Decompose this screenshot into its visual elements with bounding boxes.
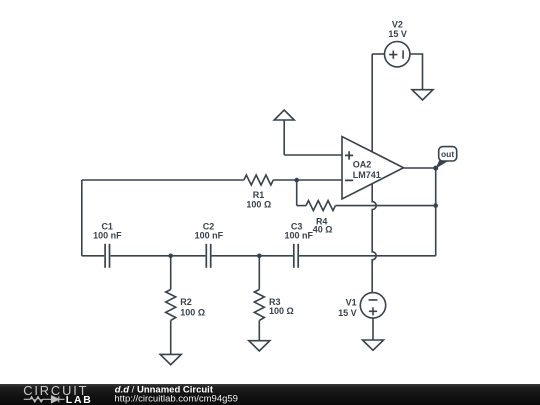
wire VCC stem — [283, 120, 285, 155]
footer bar — [0, 384, 540, 405]
wire R4 left lead — [297, 205, 306, 207]
capacitor C2 — [206, 244, 210, 268]
wire R1 row left segment — [82, 179, 244, 181]
svg-text:100 Ω: 100 Ω — [180, 308, 205, 318]
junction node R4 / right rail — [433, 203, 438, 208]
wire V1 bottom lead — [372, 318, 374, 340]
wire R1 right to inverting input — [273, 179, 342, 181]
wire non-inverting input — [284, 154, 342, 156]
wire left rail — [81, 180, 83, 256]
wire R3 top lead — [258, 256, 260, 290]
svg-text:15 V: 15 V — [338, 308, 357, 318]
ground for V1 — [363, 340, 384, 350]
wire right vertical rail — [435, 168, 437, 256]
capacitor C1 — [105, 244, 109, 268]
svg-text:100 nF: 100 nF — [93, 231, 122, 241]
svg-text:out: out — [441, 149, 454, 159]
svg-text:V1: V1 — [346, 297, 357, 307]
out flag — [435, 147, 456, 169]
svg-text:LAB: LAB — [66, 395, 93, 405]
wire V2 right lead — [410, 54, 423, 90]
svg-text:100 nF: 100 nF — [195, 231, 224, 241]
wire V2 left lead — [372, 53, 384, 55]
wire R2 top lead — [170, 256, 172, 290]
wire branch down to R4 — [296, 180, 298, 206]
wire main vertical rail with hops — [372, 54, 376, 293]
svg-text:100 nF: 100 nF — [285, 231, 314, 241]
wire C2 to C3 — [212, 255, 293, 257]
voltage source V1 — [360, 293, 385, 318]
svg-text:100 Ω: 100 Ω — [246, 200, 271, 210]
svg-text:OA2: OA2 — [353, 159, 372, 169]
svg-text:LM741: LM741 — [353, 170, 381, 180]
wire C1 to C2 — [110, 255, 205, 257]
wire R4 right to right rail — [335, 205, 435, 207]
junction node output / out flag — [433, 166, 438, 171]
resistor R4 — [306, 201, 335, 211]
wire op-amp output — [404, 167, 436, 169]
svg-text:15 V: 15 V — [388, 29, 407, 39]
resistor R2 — [166, 290, 176, 321]
voltage source V2 — [385, 42, 410, 67]
op-amp OA2 — [342, 137, 404, 200]
ground for V2 — [412, 90, 433, 100]
ground for R2 — [160, 354, 181, 364]
VCC power flag — [274, 110, 294, 120]
svg-text:http://circuitlab.com/cm94g59: http://circuitlab.com/cm94g59 — [114, 393, 238, 404]
svg-text:R2: R2 — [180, 297, 192, 307]
CircuitLab logo resistor-diode squiggle — [24, 396, 65, 403]
ground for R3 — [249, 341, 270, 351]
capacitor C3 — [294, 244, 298, 268]
wire R3 bottom lead — [258, 320, 260, 340]
svg-text:100 Ω: 100 Ω — [269, 306, 294, 316]
junction node C2-C3 / R3 — [257, 254, 262, 259]
wire C3 to right rail — [299, 255, 436, 257]
resistor R1 — [244, 175, 273, 185]
wire R2 bottom lead — [170, 320, 172, 354]
wire bottom row to C1 — [82, 255, 104, 257]
resistor R3 — [254, 290, 264, 321]
svg-text:40 Ω: 40 Ω — [313, 225, 333, 235]
junction node at R1 / op-amp inverting input — [294, 178, 299, 183]
junction node C1-C2 / R2 — [168, 254, 173, 259]
